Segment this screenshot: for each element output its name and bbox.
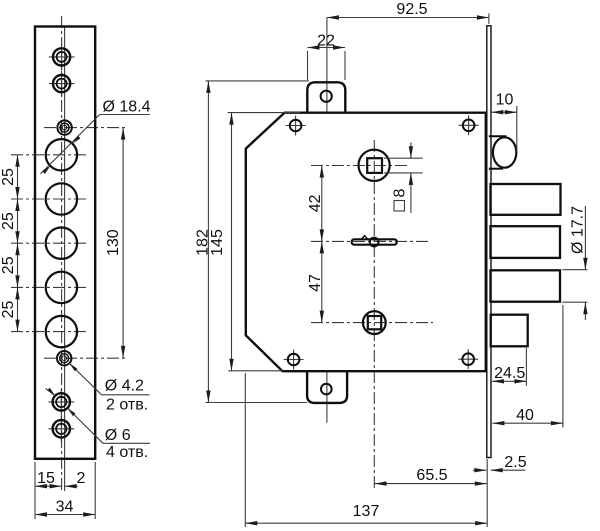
dimension 25 arrows row2 [15,199,19,243]
extension line backplate bottom [486,459,488,527]
tab centerline top [326,18,328,113]
dimension Ø17.7 [562,206,587,320]
body screw hole TL [290,120,302,132]
dimension 145 [228,113,300,371]
dimension 25 arrows row3 [15,243,19,287]
crosshair screw hole S4 [49,416,75,442]
centerline row key bit [311,240,431,242]
dimension 42 [320,166,324,242]
svg-text:2: 2 [77,470,86,487]
svg-text:137: 137 [353,503,380,520]
mounting tab top [307,82,345,113]
svg-text:25: 25 [0,256,17,274]
svg-text:22: 22 [317,33,335,50]
faceplate centerline (vertical dash-dot) [61,16,63,491]
dimension 2.5 [473,454,527,473]
svg-text:65.5: 65.5 [416,467,447,484]
deadbolt 2 [491,226,561,258]
svg-text:47: 47 [307,274,324,292]
svg-text:42: 42 [307,194,324,212]
svg-text:40: 40 [516,407,534,424]
label Ø17.7 [569,206,586,254]
svg-text:2 отв.: 2 отв. [106,396,148,413]
label 130 [105,229,122,256]
crosshair body screw hole BL [284,350,304,370]
svg-text:Ø 4.2: Ø 4.2 [105,378,144,395]
hole 18.4 C5 [46,316,77,347]
centerline row bottom spindle [311,322,433,324]
hole 18.4 C3 [46,228,77,259]
dimension 130 line [121,128,125,358]
hole 18.4 C2 [46,183,77,214]
dimension 137 [245,503,487,525]
svg-text:130: 130 [105,229,122,256]
leader note Ø6 4 holes [46,388,150,461]
centerline row top spindle [311,165,408,167]
faceplate offset line (vertical solid thin, 2mm line) [64,27,66,492]
svg-text:Ø 17.7: Ø 17.7 [569,206,586,254]
cylinder housing [489,136,507,168]
label 25 #4 [0,301,17,319]
svg-text:10: 10 [496,92,514,109]
dimension 92.5 [327,1,489,24]
tab centerline bottom [326,372,328,423]
centerline row hole A1 (top 4.2) [44,127,127,129]
crosshair body screw hole BR [458,349,478,369]
dimension 22 [308,33,346,80]
label 182 [194,229,211,256]
dimension 25 arrows row1 [15,155,19,199]
tab hole bottom [321,384,332,395]
svg-text:15: 15 [37,470,55,487]
mounting tab bottom [307,371,347,403]
lock body outline [246,113,486,372]
spindle centerline vertical [373,140,375,489]
dimension 47 [320,241,324,322]
backplate strip [487,26,491,458]
svg-text:25: 25 [0,168,17,186]
dimension 34 [35,498,95,516]
label square 8 [392,189,409,212]
label 25 #1 [0,168,17,186]
svg-text:Ø 18.4: Ø 18.4 [103,98,151,115]
deadbolt 1 [491,184,561,215]
leader note Ø18.4 [41,98,151,174]
body screw hole TR [463,120,475,132]
svg-text:25: 25 [0,212,17,230]
crosshair body screw hole TR [459,115,479,135]
faceplate outline [35,27,95,459]
crosshair screw hole S3 [49,389,75,415]
label 42 [307,194,324,212]
tab hole top [321,91,332,102]
screw hole S1 (Ø6) [53,48,70,65]
cylinder ellipse [493,137,516,167]
key bit bulge [370,238,379,247]
dimension chain 25 line [17,155,19,332]
hole A2 (Ø4.2 bottom) [57,351,71,365]
leader note Ø4.2 2 holes [69,363,149,413]
hole 18.4 C1 [46,139,77,170]
dimension 2 (offset) [65,470,86,489]
centerline row hole A2 (bottom 4.2) [44,357,127,359]
hole A1 (Ø4.2 top) [57,120,71,134]
dimension 25 arrows row4 [15,287,19,331]
bottom spindle circle [363,311,386,334]
crosshair body screw hole TL [286,116,306,136]
centerline row circle C3 [11,242,88,244]
centerline row circle C4 [11,286,88,288]
label 25 #3 [0,256,17,274]
extension line faceplate bottom right [94,462,96,519]
extension line faceplate bottom left [34,462,36,519]
top spindle square 8mm [367,158,382,173]
dimension 10 [491,92,517,153]
dimension 24.5 [492,348,526,386]
screw hole S4 (Ø6) [53,420,70,437]
svg-text:24.5: 24.5 [494,365,525,382]
extension line body left bottom [244,373,246,527]
svg-text:4 отв.: 4 отв. [106,444,148,461]
body screw hole BR [462,353,474,365]
svg-text:2.5: 2.5 [504,454,526,471]
dimension square 8 [384,143,423,214]
svg-text:92.5: 92.5 [396,1,427,18]
dimension 182 [206,81,310,403]
centerline row circle C5 [11,331,88,333]
svg-text:25: 25 [0,301,17,319]
dimension 65.5 [375,467,487,486]
latch bolt [491,315,528,347]
crosshair screw hole S1 [49,44,75,70]
centerline row circle C1 [11,154,88,156]
body screw hole BL [288,354,300,366]
svg-text:8: 8 [392,189,409,198]
deadbolt 3 [491,270,561,301]
dimension 40 [492,305,563,428]
key bit notch [361,236,368,240]
screw hole S2 (Ø6) [53,75,70,92]
svg-text:34: 34 [56,498,74,515]
label 25 #2 [0,212,17,230]
dimension 15 [35,470,62,489]
centerline row circle C2 [11,198,88,200]
label 47 [307,274,324,292]
svg-text:Ø 6: Ø 6 [105,427,131,444]
svg-text:145: 145 [209,229,226,256]
hole 18.4 C4 [46,272,77,303]
label 145 [209,229,226,256]
key bit bar [352,239,397,244]
crosshair screw hole S2 [49,71,75,97]
bottom spindle square [368,316,381,329]
screw hole S3 (Ø6) [53,393,70,410]
top spindle circle [359,150,390,181]
